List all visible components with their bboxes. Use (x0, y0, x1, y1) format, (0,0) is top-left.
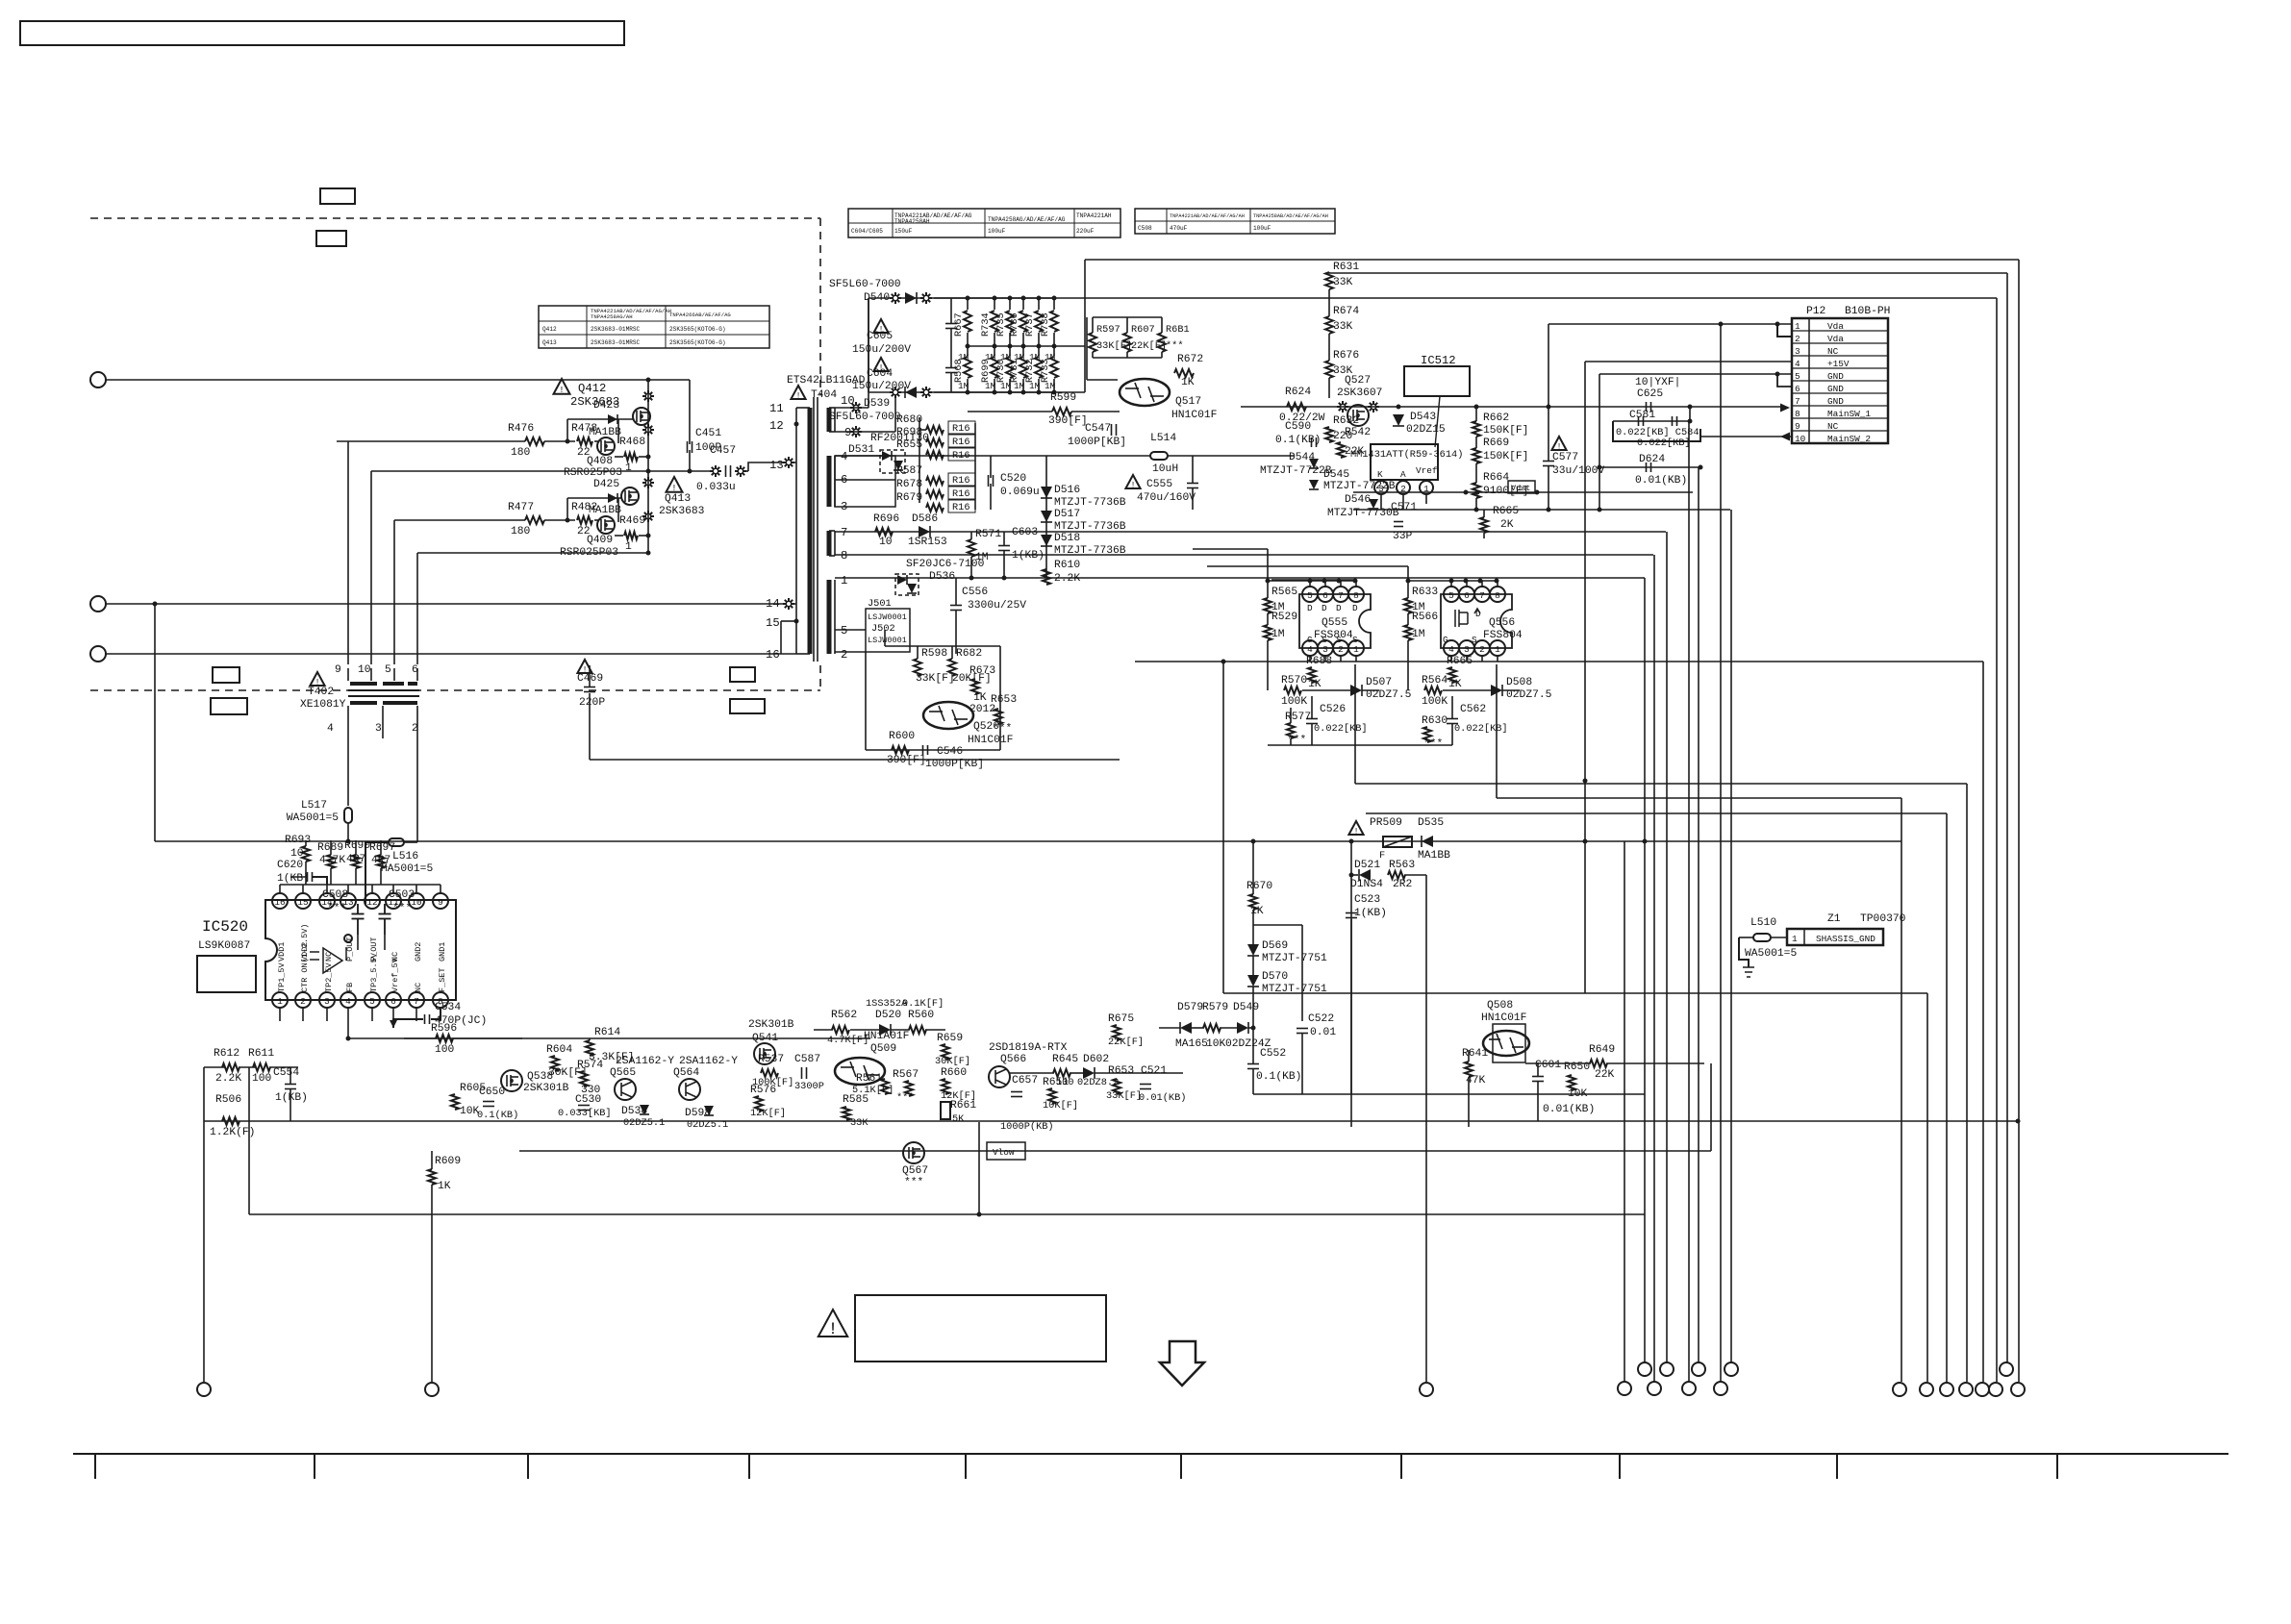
svg-text:Q566: Q566 (1000, 1054, 1026, 1065)
ic IC512 pointer (1435, 396, 1440, 447)
diode D598 (704, 1106, 714, 1115)
svg-text:NC: NC (1827, 346, 1839, 357)
IC520 pin 2 (295, 992, 311, 1008)
pin 8 q556 (1490, 587, 1505, 602)
svg-text:R506: R506 (215, 1094, 241, 1106)
svg-text:150u/200V: 150u/200V (852, 381, 911, 392)
bottom pin m2 (1725, 1362, 1738, 1376)
IC520 pin 5 (365, 992, 380, 1008)
wire p12 pin1 (1548, 323, 1792, 325)
svg-text:1(KB): 1(KB) (275, 1092, 308, 1104)
svg-text:0.022[KB]: 0.022[KB] (1637, 437, 1691, 449)
svg-text:6: 6 (1795, 384, 1800, 394)
transistor Q412 (633, 408, 650, 425)
svg-text:1(KB): 1(KB) (1354, 908, 1387, 919)
svg-text:R737: R737 (1024, 312, 1036, 337)
svg-text:R732: R732 (1024, 359, 1036, 383)
connector P12 table (1792, 318, 1888, 443)
svg-text:!: ! (671, 483, 677, 493)
svg-text:2SA1162-Y: 2SA1162-Y (679, 1056, 738, 1067)
wire d521 row (1351, 874, 1358, 876)
svg-text:IC520: IC520 (202, 918, 248, 936)
svg-text:J501: J501 (868, 598, 892, 610)
dashed enclosure top edge (90, 217, 820, 219)
svg-text:R633: R633 (1412, 587, 1438, 598)
svg-text:5: 5 (1307, 590, 1313, 601)
callout box B3 (730, 667, 755, 682)
svg-text:R653: R653 (1108, 1065, 1134, 1077)
svg-text:16: 16 (766, 648, 780, 662)
svg-text:!: ! (795, 390, 800, 400)
pin 3b q556 (1459, 640, 1474, 656)
svg-text:6: 6 (1322, 590, 1328, 601)
svg-text:C650: C650 (479, 1087, 505, 1098)
svg-text:2: 2 (300, 996, 306, 1007)
svg-text:R478: R478 (571, 423, 597, 435)
transformer T404 winding 10-9 (834, 408, 836, 432)
IC520 pin 3 (319, 992, 335, 1008)
warning Q412 (554, 379, 570, 394)
wire x161 drop (153, 602, 158, 607)
svg-text:C552: C552 (1260, 1048, 1286, 1060)
dashed enclosure bottom edge (90, 689, 820, 691)
svg-text:1K: 1K (973, 692, 987, 704)
IC520 pin 7 (409, 992, 424, 1008)
svg-text:R567: R567 (893, 1069, 919, 1081)
wire y395 ext (647, 379, 690, 381)
svg-text:GND: GND (1827, 371, 1844, 382)
svg-text:R16: R16 (952, 475, 970, 487)
svg-text:C521: C521 (1141, 1065, 1167, 1077)
callout box A1 (320, 188, 355, 204)
callout box B2 (211, 698, 247, 714)
wire q555 top bus (1268, 580, 1355, 582)
svg-text:R660: R660 (941, 1067, 967, 1079)
wire y284 bus (1326, 272, 2007, 274)
svg-text:FSS804: FSS804 (1483, 630, 1523, 641)
svg-text:0.033[KB]: 0.033[KB] (558, 1108, 612, 1119)
IC520 pin 1 (272, 992, 288, 1008)
svg-text:10K[F]: 10K[F] (1043, 1100, 1078, 1112)
transformer T404 winding 4-6-3 (834, 456, 836, 507)
IC520 pin 6 (386, 992, 401, 1008)
svg-text:R576: R576 (750, 1085, 776, 1096)
svg-text:R599: R599 (1050, 392, 1076, 404)
svg-text:Vref: Vref (1416, 465, 1438, 476)
wire y1197 (519, 1150, 1711, 1152)
svg-text:GND2: GND2 (414, 942, 423, 962)
svg-text:Q565: Q565 (610, 1067, 636, 1079)
wire r565 (1267, 581, 1269, 598)
svg-text:1000P[KB]: 1000P[KB] (925, 759, 984, 770)
svg-text:D586: D586 (912, 513, 938, 525)
wire drop m0 (1624, 841, 1625, 1382)
svg-text:C457: C457 (710, 445, 736, 457)
svg-text:10uH: 10uH (1152, 463, 1178, 475)
svg-text:C657: C657 (1012, 1075, 1038, 1087)
diode D516 (1041, 487, 1052, 498)
svg-text:F_SET: F_SET (438, 967, 447, 992)
svg-text:R561: R561 (856, 1073, 882, 1085)
svg-text:R612: R612 (214, 1048, 239, 1060)
svg-text:C604: C604 (867, 368, 893, 380)
svg-text:R577: R577 (1285, 712, 1311, 723)
svg-text:C554: C554 (273, 1067, 299, 1079)
svg-text:T402: T402 (308, 687, 334, 698)
svg-text:1M: 1M (1271, 629, 1285, 640)
ic MM1431ATT (1371, 444, 1438, 480)
svg-text:1(KB): 1(KB) (277, 873, 310, 885)
wire y688 bus (1135, 661, 1983, 662)
ic Q556 body (1441, 594, 1512, 648)
svg-text:C546: C546 (937, 746, 963, 758)
svg-text:C562: C562 (1460, 704, 1486, 715)
svg-text:R598: R598 (921, 648, 947, 660)
svg-text:R672: R672 (1177, 354, 1203, 365)
wire r562 row (814, 1029, 833, 1031)
svg-text:GND: GND (1827, 384, 1844, 394)
svg-text:22K[F]: 22K[F] (1108, 1037, 1144, 1048)
svg-text:22K: 22K (1595, 1069, 1615, 1081)
svg-text:TNPA4221AB/AD/AE/AF/AG/AH: TNPA4221AB/AD/AE/AF/AG/AH (1170, 213, 1245, 219)
svg-text:33K: 33K (850, 1117, 869, 1129)
wire right border v1 (2018, 260, 2020, 1382)
wire r476 row (337, 440, 525, 442)
svg-text:C526: C526 (1320, 704, 1346, 715)
wire p12 pin8 arrow (1780, 404, 1790, 412)
diode D539 (905, 387, 917, 398)
svg-text:30K[F]: 30K[F] (935, 1056, 970, 1067)
wire r631 chain (1328, 272, 1330, 273)
bottom pin m2 (1660, 1362, 1674, 1376)
svg-text:C547: C547 (1085, 423, 1111, 435)
bottom pin r (1976, 1383, 1989, 1396)
wire net3 (106, 653, 796, 655)
label R16b (948, 435, 975, 447)
svg-text:R661: R661 (950, 1100, 976, 1112)
wire v 2045 (1966, 784, 1968, 1382)
wire l514 right (1168, 455, 1294, 457)
svg-text:9: 9 (1795, 421, 1800, 432)
svg-text:180: 180 (511, 447, 531, 459)
wire q520 bus 672 (885, 645, 1000, 647)
title box (20, 21, 624, 45)
svg-text:J502: J502 (871, 623, 895, 635)
svg-text:33u/100V: 33u/100V (1552, 465, 1604, 477)
svg-text:100: 100 (252, 1073, 272, 1085)
svg-text:10: 10 (879, 537, 893, 548)
IC520 pin 11 (386, 893, 401, 909)
svg-text:4: 4 (345, 996, 351, 1007)
warning bottom (818, 1310, 847, 1337)
svg-text:MTZJT-7751: MTZJT-7751 (1262, 953, 1327, 964)
IC520 pin 16 (272, 893, 288, 909)
wire row8 (969, 576, 974, 581)
svg-text:R585: R585 (843, 1094, 869, 1106)
svg-text:33K: 33K (1333, 321, 1353, 333)
wire drop m1 (1644, 578, 1646, 1362)
star c457a (710, 465, 721, 477)
svg-text:TNPA4258AG/AH: TNPA4258AG/AH (591, 313, 633, 320)
svg-text:R571: R571 (975, 529, 1001, 540)
svg-text:SF20JC6-7100: SF20JC6-7100 (906, 559, 985, 570)
svg-text:16: 16 (274, 897, 286, 908)
svg-text:Q567: Q567 (902, 1165, 928, 1177)
IC520 pin 12 (365, 893, 380, 909)
svg-text:100uF: 100uF (988, 228, 1006, 235)
connector pin circle P3 (90, 646, 106, 662)
wire c552 bus (1253, 1093, 1302, 1095)
svg-text:15: 15 (297, 897, 309, 908)
ic IC512 box (1404, 366, 1470, 396)
svg-text:LSJW0001: LSJW0001 (868, 636, 907, 645)
bottom pin r2 (2000, 1362, 2013, 1376)
svg-text:D518: D518 (1054, 533, 1080, 544)
svg-text:R697: R697 (369, 842, 395, 854)
svg-text:11: 11 (388, 897, 399, 908)
wire p12 pin6 (1777, 374, 1792, 387)
svg-text:Q412: Q412 (578, 382, 606, 395)
svg-text:L510: L510 (1750, 917, 1776, 929)
svg-text:R665: R665 (1493, 506, 1519, 517)
wire right border v3 (1996, 298, 1998, 1382)
diode D569 (1247, 944, 1259, 956)
svg-text:1M: 1M (1412, 629, 1425, 640)
svg-text:150uF: 150uF (894, 228, 913, 235)
wire d425 left leg (566, 498, 568, 520)
svg-text:D1NS4: D1NS4 (1350, 879, 1383, 890)
T404 winding box 463 (835, 456, 895, 507)
pin 4b q555 (1302, 640, 1318, 656)
svg-text:C555: C555 (1146, 479, 1172, 490)
star d539b (920, 387, 932, 398)
svg-text:T404: T404 (811, 389, 837, 401)
svg-text:Q517: Q517 (1175, 396, 1201, 408)
label R16d (948, 473, 975, 486)
wire r597 bot (1093, 357, 1162, 359)
wire r599 (968, 411, 1052, 412)
svg-text:TP3_5.5V: TP3_5.5V (369, 952, 379, 992)
svg-text:2SK3607: 2SK3607 (1337, 387, 1382, 399)
resistor R737 (1038, 298, 1040, 310)
svg-text:2SK3683-01MRSC: 2SK3683-01MRSC (591, 326, 641, 333)
svg-text:4R7: 4R7 (346, 854, 365, 865)
wire net2 (106, 603, 796, 605)
wire d539 row (869, 391, 1085, 393)
svg-text:150K[F]: 150K[F] (1483, 425, 1528, 437)
svg-text:R632: R632 (1333, 415, 1359, 427)
opamp inside IC520 (323, 948, 342, 973)
svg-text:8: 8 (1795, 409, 1800, 419)
capacitor table 1 (848, 209, 1120, 237)
svg-text:R664: R664 (1483, 472, 1509, 484)
svg-text:12K[F]: 12K[F] (750, 1108, 786, 1119)
svg-text:R16: R16 (952, 488, 970, 500)
svg-text:10K: 10K (1206, 1038, 1226, 1050)
svg-text:D423: D423 (593, 400, 619, 412)
svg-text:10|YXF|: 10|YXF| (1635, 377, 1680, 388)
relay J501 box (866, 609, 910, 652)
diode D508 (1491, 685, 1502, 696)
svg-text:!: ! (559, 385, 565, 395)
svg-text:C577: C577 (1552, 452, 1578, 463)
svg-text:***: *** (993, 723, 1012, 735)
svg-text:7: 7 (1338, 590, 1344, 601)
svg-text:WA5001=5: WA5001=5 (287, 812, 339, 824)
svg-text:R645: R645 (1052, 1054, 1078, 1065)
svg-text:8: 8 (1353, 590, 1359, 601)
svg-text:9: 9 (438, 897, 443, 908)
star d540b (920, 292, 932, 304)
svg-text:4: 4 (1795, 359, 1800, 369)
star d540a (890, 292, 901, 304)
svg-text:R696: R696 (873, 513, 899, 525)
svg-text:7: 7 (1479, 590, 1485, 601)
dashed enclosure right edge (819, 218, 821, 395)
wire r670 (1252, 841, 1254, 894)
svg-text:***: *** (904, 1177, 923, 1188)
svg-text:R477: R477 (508, 502, 534, 513)
svg-text:1: 1 (1795, 321, 1800, 332)
wire r649 (1525, 1062, 1591, 1064)
svg-text:G: G (1307, 635, 1313, 645)
bottom pin c (1420, 1383, 1433, 1396)
svg-text:2K: 2K (1500, 519, 1514, 531)
ic Q555 body (1299, 594, 1371, 648)
svg-text:1: 1 (625, 462, 632, 474)
svg-text:MTZJT-7736B: MTZJT-7736B (1054, 521, 1126, 533)
svg-text:+15V: +15V (1827, 359, 1850, 369)
bottom pin r (1959, 1383, 1973, 1396)
svg-text:5: 5 (369, 996, 375, 1007)
svg-text:150K[F]: 150K[F] (1483, 451, 1528, 462)
svg-text:100: 100 (435, 1044, 455, 1056)
star Q413 mid (642, 511, 654, 522)
svg-text:4.7K: 4.7K (319, 855, 345, 866)
svg-text:MTZJT-7722B: MTZJT-7722B (1260, 465, 1332, 477)
svg-text:R537: R537 (758, 1054, 784, 1065)
svg-text:D602: D602 (1083, 1054, 1109, 1065)
wire resistor drops (305, 840, 307, 846)
svg-text:R611: R611 (248, 1048, 274, 1060)
svg-text:FB: FB (345, 983, 355, 992)
label C604 (873, 358, 888, 371)
svg-text:1: 1 (841, 574, 847, 587)
svg-text:D: D (1352, 603, 1358, 613)
transistor Q413u (621, 487, 639, 505)
net Vlow box (987, 1142, 1025, 1160)
svg-text:220P: 220P (579, 697, 605, 709)
resistor R736 (1022, 298, 1024, 310)
svg-text:3: 3 (1795, 346, 1800, 357)
svg-text:6: 6 (390, 996, 396, 1007)
transformer T402 bottom winding (350, 701, 377, 705)
transformer T404 primary winding (795, 408, 797, 654)
warning Q413 (667, 477, 683, 492)
svg-text:2: 2 (841, 648, 847, 662)
svg-text:100uF: 100uF (1253, 225, 1271, 232)
svg-text:2SD1819A-RTX: 2SD1819A-RTX (989, 1042, 1068, 1054)
wire vda feed (1548, 324, 1549, 407)
svg-text:SHASSIS_GND: SHASSIS_GND (1816, 934, 1876, 944)
svg-text:R476: R476 (508, 423, 534, 435)
svg-text:Vdat: Vdat (1511, 484, 1530, 493)
pin 2b q555 (1333, 640, 1348, 656)
svg-text:D: D (1475, 609, 1481, 619)
wire y790 (590, 759, 1120, 761)
svg-text:Q509: Q509 (870, 1043, 896, 1055)
IC520 internal caps (352, 913, 365, 915)
transistor Q517 (1120, 379, 1170, 406)
svg-text:1M: 1M (985, 381, 996, 391)
label R16f (948, 500, 975, 512)
wire top right bus (1085, 259, 2019, 261)
callout box A2 (316, 231, 346, 246)
bottom pin m2 (1692, 1362, 1705, 1376)
svg-text:2SK301B: 2SK301B (748, 1019, 794, 1031)
svg-text:R566: R566 (1412, 612, 1438, 623)
ic IC520 spare box (197, 956, 256, 992)
resistor R730 (1009, 346, 1011, 356)
wire q517 box (1086, 317, 1088, 380)
wire q556 pin1 drop (1496, 664, 1498, 798)
transistor Q520 (923, 702, 973, 729)
svg-text:2R2: 2R2 (1393, 879, 1412, 890)
svg-text:4: 4 (841, 450, 847, 463)
svg-text:TNPA4221AH: TNPA4221AH (1076, 212, 1112, 219)
svg-text:R731: R731 (1009, 359, 1020, 383)
svg-text:2SK3565(KOTO6-G): 2SK3565(KOTO6-G) (669, 326, 726, 333)
svg-text:7: 7 (1795, 396, 1800, 407)
svg-text:Vda: Vda (1827, 334, 1844, 344)
wire y875 long (155, 840, 1901, 842)
svg-text:R659: R659 (937, 1033, 963, 1044)
svg-text:Vda: Vda (1827, 321, 1844, 332)
svg-text:C625: C625 (1637, 388, 1663, 400)
svg-text:3: 3 (324, 996, 330, 1007)
svg-text:MTZJT-7736B: MTZJT-7736B (1054, 545, 1126, 557)
riser gate4 (416, 553, 418, 664)
svg-text:R16: R16 (952, 437, 970, 448)
svg-text:R469: R469 (619, 515, 645, 527)
svg-text:D531: D531 (848, 444, 874, 456)
wire d540 row (869, 297, 1997, 299)
wire fss top link (1271, 579, 1355, 581)
svg-text:5: 5 (841, 624, 847, 637)
wire pin10 up (868, 298, 869, 408)
svg-text:0.1(KB): 0.1(KB) (477, 1110, 518, 1121)
wire y830 bus (1497, 797, 1901, 799)
svg-text:!: ! (1130, 480, 1135, 489)
svg-text:1: 1 (277, 996, 283, 1007)
svg-text:R596: R596 (431, 1023, 457, 1035)
svg-text:2SK3683: 2SK3683 (659, 506, 705, 517)
diode D507 (1350, 685, 1362, 696)
svg-text:XE1081Y: XE1081Y (300, 699, 346, 711)
IC520 pin 10 (409, 893, 424, 909)
svg-text:10: 10 (841, 394, 855, 408)
svg-text:R564: R564 (1422, 675, 1448, 687)
svg-text:9: 9 (335, 664, 341, 676)
svg-text:0.033u: 0.033u (696, 482, 736, 493)
svg-text:S: S (1352, 635, 1358, 645)
svg-text:R560: R560 (908, 1010, 934, 1021)
svg-text:D: D (1322, 603, 1327, 613)
label R16a (948, 421, 975, 434)
wire y1138 ext (1302, 1093, 1645, 1095)
resistor R738 (1053, 298, 1055, 310)
svg-text:02DZ5.1: 02DZ5.1 (623, 1117, 665, 1129)
